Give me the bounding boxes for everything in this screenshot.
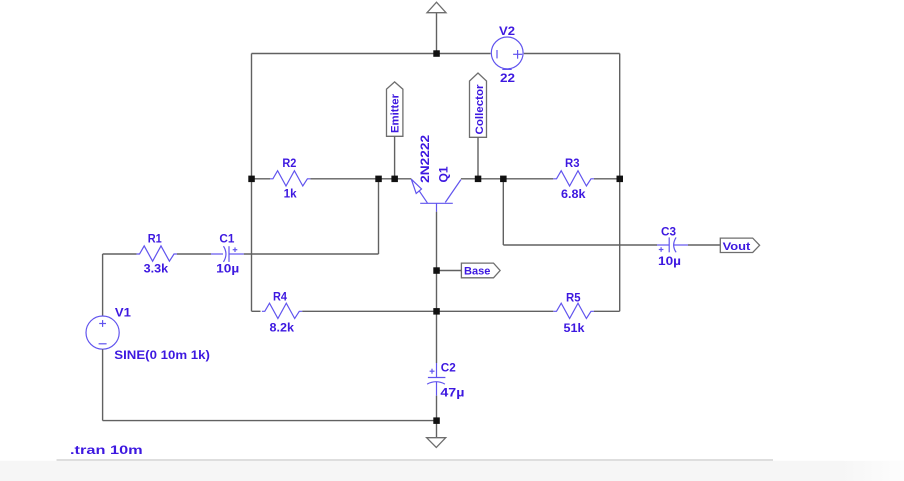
svg-text:51k: 51k <box>564 321 585 335</box>
capacitor C2 <box>427 363 445 396</box>
flag Collector <box>470 73 487 137</box>
wire base vertical lower <box>436 396 438 438</box>
junction collector tap <box>500 176 507 183</box>
svg-text:R5: R5 <box>566 291 581 305</box>
svg-text:10µ: 10µ <box>216 262 239 276</box>
wire emitter flag stub <box>394 136 396 179</box>
svg-text:V2: V2 <box>499 24 515 38</box>
flag Vout <box>720 238 759 253</box>
svg-text:R3: R3 <box>565 156 580 170</box>
wire right rail <box>619 54 621 312</box>
flag Base <box>461 263 500 278</box>
resistor R2 <box>270 171 310 186</box>
svg-text:47µ: 47µ <box>440 385 464 399</box>
svg-text:C1: C1 <box>219 232 234 246</box>
wire V1 top vertical <box>102 254 104 316</box>
svg-text:2N2222: 2N2222 <box>418 135 432 183</box>
wire C1 to feedback corner <box>244 253 379 255</box>
wire collector tap vertical <box>502 179 504 245</box>
svg-text:10µ: 10µ <box>658 254 681 268</box>
wire R4 to R5 <box>302 310 553 312</box>
wire bottom rail <box>103 420 437 422</box>
svg-text:R2: R2 <box>282 156 296 170</box>
junction collector flag <box>475 176 482 183</box>
svg-text:Q1: Q1 <box>436 166 450 182</box>
junction top rail <box>433 50 440 57</box>
wire R1 to C1 <box>177 253 211 255</box>
junction right rail / R3 <box>617 176 624 183</box>
wire top rail right of V2 <box>524 53 620 55</box>
svg-text:22: 22 <box>500 71 515 85</box>
junction base flag <box>433 267 440 274</box>
wire R3 to right rail <box>594 178 620 180</box>
svg-text:SINE(0 10m 1k): SINE(0 10m 1k) <box>114 348 210 362</box>
junction left rail / R2 <box>248 176 255 183</box>
wire collector row <box>461 178 553 180</box>
junction bottom rail / C2 <box>433 417 440 424</box>
junction feedback vertical <box>375 176 382 183</box>
wire base vertical upper <box>436 212 438 363</box>
wire V1 row left <box>103 253 137 255</box>
flag Base stub <box>437 270 462 272</box>
svg-text:Emitter: Emitter <box>390 93 402 133</box>
svg-text:1k: 1k <box>284 187 297 201</box>
svg-text:V1: V1 <box>115 305 131 319</box>
flag Emitter <box>387 82 403 136</box>
svg-text:Collector: Collector <box>474 84 486 135</box>
wire V1 bottom vertical <box>102 349 104 420</box>
resistor R1 <box>137 246 177 261</box>
capacitor C3 <box>657 237 688 252</box>
svg-text:C2: C2 <box>441 360 456 374</box>
svg-text:C3: C3 <box>661 224 676 238</box>
resistor R5 <box>553 303 594 318</box>
wire left rail <box>251 54 253 312</box>
voltage source V2 circle <box>491 37 523 69</box>
resistor R3 <box>553 171 594 186</box>
svg-text:Base: Base <box>464 266 490 278</box>
junction emitter flag <box>391 176 398 183</box>
svg-text:Vout: Vout <box>723 241 751 253</box>
wire emitter row <box>252 178 271 180</box>
wire emitter row right of R2 <box>310 178 411 180</box>
ground symbol <box>427 438 446 448</box>
wire R5 to right rail <box>594 310 620 312</box>
svg-text:.tran 10m: .tran 10m <box>70 443 143 457</box>
wire C3 row left <box>503 244 657 246</box>
svg-text:6.8k: 6.8k <box>561 187 586 201</box>
svg-text:3.3k: 3.3k <box>144 262 169 276</box>
power flag triangle <box>427 2 446 13</box>
voltage source V1 <box>86 316 119 349</box>
svg-text:R4: R4 <box>273 290 287 304</box>
wire emitter feedback vertical <box>378 179 380 254</box>
junction base / R4R5 row <box>433 308 440 315</box>
wire C3 to Vout <box>688 244 720 246</box>
wire R4 row left <box>252 310 261 312</box>
wire power stub <box>436 13 438 54</box>
wire top rail left of V2 <box>252 53 491 55</box>
capacitor C1 <box>211 246 244 262</box>
svg-text:8.2k: 8.2k <box>270 320 295 334</box>
transistor Q1 <box>411 179 461 212</box>
svg-text:R1: R1 <box>148 232 162 246</box>
resistor R4 <box>262 303 302 318</box>
wire collector flag stub <box>477 137 479 179</box>
